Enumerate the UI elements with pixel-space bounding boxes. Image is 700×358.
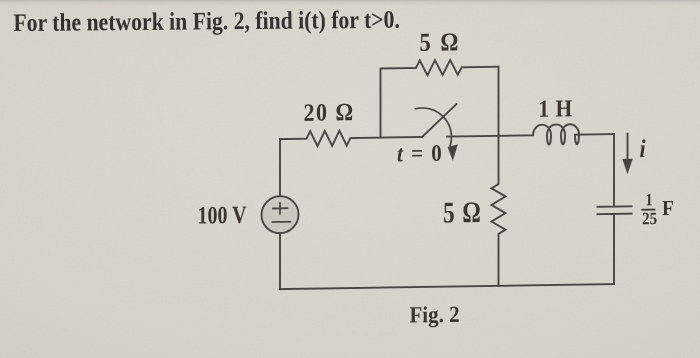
svg-text:1 H: 1 H: [538, 95, 572, 122]
svg-text:1: 1: [645, 191, 652, 209]
svg-text:25: 25: [642, 210, 657, 228]
svg-text:i: i: [640, 136, 646, 164]
svg-text:t = 0: t = 0: [397, 140, 443, 167]
svg-text:5 Ω: 5 Ω: [443, 195, 482, 229]
svg-text:F: F: [662, 197, 674, 220]
svg-text:20 Ω: 20 Ω: [303, 99, 354, 127]
svg-text:For the network in Fig. 2, fin: For the network in Fig. 2, find i(t) for…: [13, 6, 400, 37]
svg-text:100 V: 100 V: [198, 201, 247, 229]
svg-text:Fig. 2: Fig. 2: [409, 301, 459, 328]
svg-text:5 Ω: 5 Ω: [420, 28, 461, 57]
